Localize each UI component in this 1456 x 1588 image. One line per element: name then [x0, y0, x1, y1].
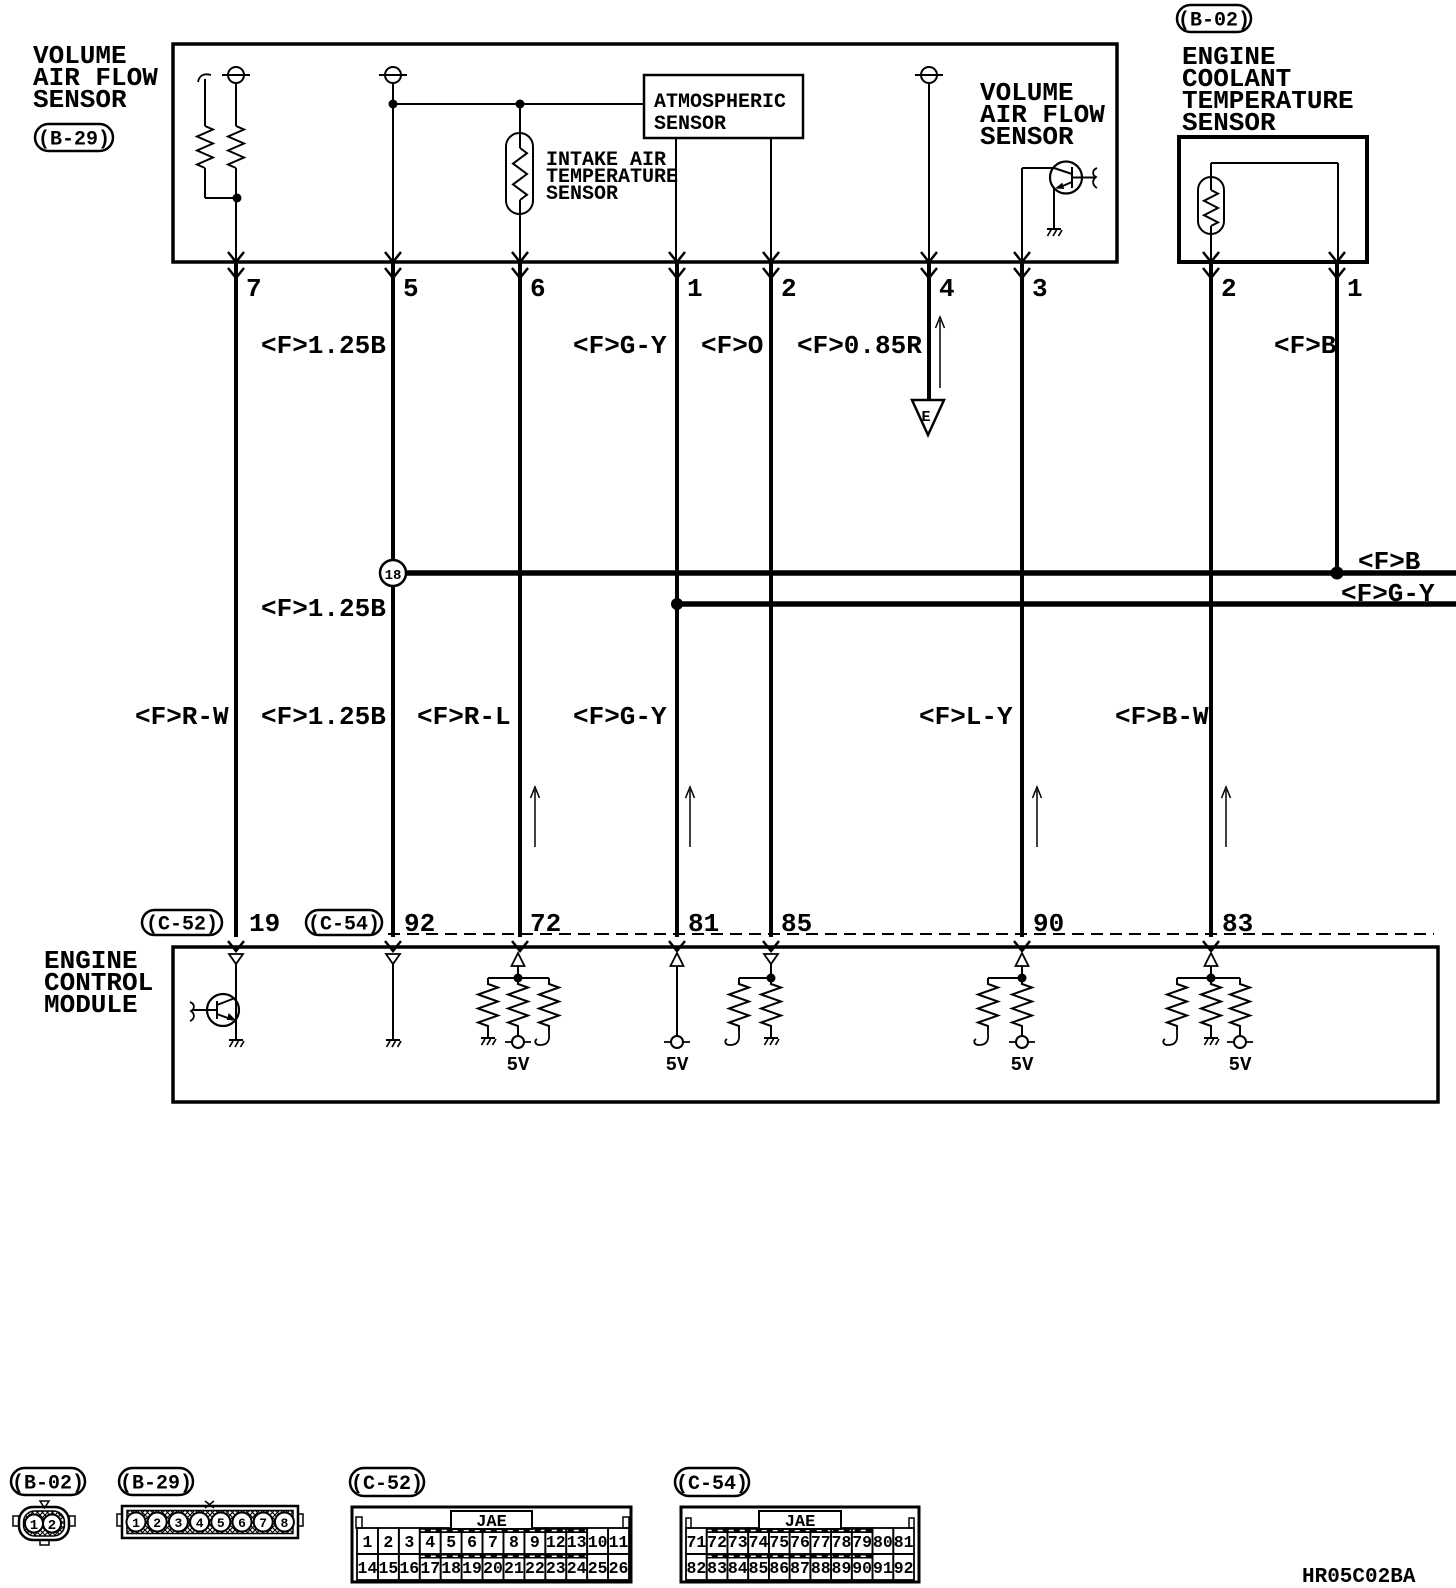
svg-text:E: E — [921, 409, 930, 426]
svg-text:18: 18 — [441, 1559, 461, 1578]
svg-text:73: 73 — [728, 1533, 748, 1552]
svg-text:(B-29): (B-29) — [38, 129, 110, 152]
svg-text:4: 4 — [939, 274, 955, 304]
svg-text:2: 2 — [48, 1518, 56, 1534]
svg-text:5V: 5V — [666, 1054, 689, 1076]
svg-text:85: 85 — [749, 1559, 769, 1578]
svg-text:6: 6 — [238, 1516, 246, 1531]
svg-text:24: 24 — [567, 1559, 587, 1578]
svg-text:23: 23 — [546, 1559, 566, 1578]
svg-text:17: 17 — [420, 1559, 440, 1578]
svg-text:SENSOR: SENSOR — [33, 85, 127, 115]
svg-text:SENSOR: SENSOR — [654, 113, 726, 136]
svg-text:21: 21 — [504, 1559, 524, 1578]
svg-text:<F>L-Y: <F>L-Y — [919, 702, 1013, 732]
svg-text:22: 22 — [525, 1559, 545, 1578]
svg-text:19: 19 — [249, 909, 280, 939]
svg-text:HR05C02BA: HR05C02BA — [1302, 1566, 1416, 1588]
svg-text:87: 87 — [790, 1559, 810, 1578]
svg-text:91: 91 — [873, 1559, 893, 1578]
svg-text:82: 82 — [686, 1559, 706, 1578]
svg-text:<F>R-W: <F>R-W — [135, 702, 229, 732]
svg-text:MODULE: MODULE — [44, 990, 138, 1020]
svg-text:74: 74 — [749, 1533, 769, 1552]
svg-text:<F>O: <F>O — [701, 331, 763, 361]
svg-text:(B-02): (B-02) — [1178, 10, 1250, 33]
svg-text:19: 19 — [462, 1559, 482, 1578]
svg-text:7: 7 — [259, 1516, 267, 1531]
svg-text:14: 14 — [358, 1559, 378, 1578]
svg-text:85: 85 — [781, 909, 812, 939]
svg-text:81: 81 — [688, 909, 719, 939]
svg-text:92: 92 — [404, 909, 435, 939]
svg-text:SENSOR: SENSOR — [980, 122, 1074, 152]
svg-text:1: 1 — [1347, 274, 1363, 304]
svg-text:89: 89 — [832, 1559, 852, 1578]
svg-text:5: 5 — [403, 274, 419, 304]
svg-text:5V: 5V — [1011, 1054, 1034, 1076]
svg-text:6: 6 — [467, 1533, 477, 1552]
svg-text:84: 84 — [728, 1559, 748, 1578]
svg-text:90: 90 — [1033, 909, 1064, 939]
svg-text:18: 18 — [385, 568, 402, 584]
svg-text:2: 2 — [153, 1516, 161, 1531]
svg-text:ATMOSPHERIC: ATMOSPHERIC — [654, 91, 786, 114]
svg-text:(B-02): (B-02) — [12, 1473, 84, 1496]
svg-text:<F>B: <F>B — [1274, 331, 1337, 361]
svg-text:1: 1 — [687, 274, 703, 304]
svg-text:5: 5 — [446, 1533, 456, 1552]
svg-text:SENSOR: SENSOR — [1182, 108, 1276, 138]
svg-text:83: 83 — [707, 1559, 727, 1578]
svg-text:72: 72 — [707, 1533, 727, 1552]
svg-text:77: 77 — [811, 1533, 831, 1552]
svg-text:(C-52): (C-52) — [146, 914, 218, 937]
svg-text:<F>G-Y: <F>G-Y — [573, 702, 667, 732]
svg-text:JAE: JAE — [785, 1513, 816, 1532]
svg-text:1: 1 — [132, 1516, 140, 1531]
svg-text:7: 7 — [246, 274, 262, 304]
svg-text:(C-54): (C-54) — [308, 914, 380, 937]
svg-text:7: 7 — [488, 1533, 498, 1552]
svg-text:2: 2 — [781, 274, 797, 304]
svg-text:10: 10 — [588, 1533, 608, 1552]
svg-text:3: 3 — [174, 1516, 182, 1531]
svg-text:2: 2 — [383, 1533, 393, 1552]
svg-text:12: 12 — [546, 1533, 566, 1552]
svg-text:<F>R-L: <F>R-L — [417, 702, 511, 732]
svg-text:<F>G-Y: <F>G-Y — [1341, 579, 1435, 609]
svg-text:5V: 5V — [1229, 1054, 1252, 1076]
svg-text:71: 71 — [686, 1533, 706, 1552]
svg-text:90: 90 — [852, 1559, 872, 1578]
svg-text:86: 86 — [769, 1559, 789, 1578]
svg-text:8: 8 — [280, 1516, 288, 1531]
svg-text:<F>1.25B: <F>1.25B — [261, 594, 386, 624]
svg-text:3: 3 — [1032, 274, 1048, 304]
svg-text:72: 72 — [530, 909, 561, 939]
svg-text:<F>1.25B: <F>1.25B — [261, 702, 386, 732]
svg-text:(B-29): (B-29) — [120, 1473, 192, 1496]
svg-text:<F>1.25B: <F>1.25B — [261, 331, 386, 361]
svg-text:76: 76 — [790, 1533, 810, 1552]
svg-text:1: 1 — [30, 1518, 38, 1534]
svg-text:11: 11 — [609, 1533, 629, 1552]
svg-text:4: 4 — [196, 1516, 204, 1531]
svg-text:(C-54): (C-54) — [676, 1473, 748, 1496]
svg-text:13: 13 — [567, 1533, 587, 1552]
svg-text:78: 78 — [832, 1533, 852, 1552]
svg-text:2: 2 — [1221, 274, 1237, 304]
svg-text:3: 3 — [404, 1533, 414, 1552]
svg-text:81: 81 — [894, 1533, 914, 1552]
svg-text:(C-52): (C-52) — [351, 1473, 423, 1496]
svg-text:83: 83 — [1222, 909, 1253, 939]
svg-text:6: 6 — [530, 274, 546, 304]
svg-text:5: 5 — [217, 1516, 225, 1531]
svg-text:16: 16 — [399, 1559, 419, 1578]
svg-text:SENSOR: SENSOR — [546, 183, 618, 206]
svg-text:15: 15 — [378, 1559, 398, 1578]
svg-text:25: 25 — [588, 1559, 608, 1578]
svg-text:<F>B-W: <F>B-W — [1115, 702, 1209, 732]
svg-text:1: 1 — [363, 1533, 373, 1552]
svg-text:9: 9 — [530, 1533, 540, 1552]
svg-text:8: 8 — [509, 1533, 519, 1552]
svg-text:75: 75 — [769, 1533, 789, 1552]
svg-text:92: 92 — [894, 1559, 914, 1578]
svg-text:4: 4 — [425, 1533, 435, 1552]
svg-text:JAE: JAE — [476, 1513, 507, 1532]
svg-text:<F>G-Y: <F>G-Y — [573, 331, 667, 361]
svg-text:88: 88 — [811, 1559, 831, 1578]
svg-text:5V: 5V — [507, 1054, 530, 1076]
svg-text:79: 79 — [852, 1533, 872, 1552]
svg-text:<F>B: <F>B — [1358, 547, 1421, 577]
svg-text:80: 80 — [873, 1533, 893, 1552]
svg-text:20: 20 — [483, 1559, 503, 1578]
svg-text:<F>0.85R: <F>0.85R — [797, 331, 922, 361]
svg-text:26: 26 — [609, 1559, 629, 1578]
